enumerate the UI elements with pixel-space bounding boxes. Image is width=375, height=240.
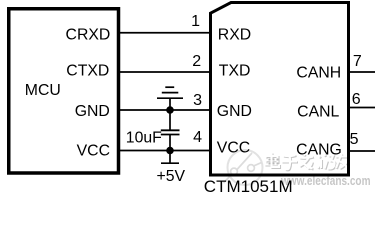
svg-text:3: 3 (193, 92, 202, 109)
svg-text:1: 1 (191, 13, 200, 30)
junction dot on GND wire (166, 106, 174, 114)
svg-text:10uF: 10uF (126, 130, 162, 147)
+5V supply terminal (161, 151, 179, 164)
wire GND (pin 3) (120, 109, 211, 111)
svg-text:CANG: CANG (296, 142, 342, 159)
capacitor C1 (161, 110, 180, 151)
svg-text:VCC: VCC (77, 143, 110, 160)
svg-text:TXD: TXD (219, 62, 251, 79)
ground symbol (157, 87, 183, 110)
svg-text:MCU: MCU (25, 82, 61, 99)
wire CRXD to RXD (pin 1) (120, 32, 211, 34)
svg-text:VCC: VCC (217, 140, 250, 157)
wire CANL (pin 6) (349, 107, 375, 109)
svg-text:CTM1051M: CTM1051M (204, 177, 293, 196)
CAN transceiver U1 CTM1051M outline (211, 3, 349, 176)
svg-text:2: 2 (192, 53, 201, 70)
junction dot on VCC wire (166, 147, 174, 155)
svg-text:CANH: CANH (296, 64, 341, 81)
wire CANH (pin 7) (349, 71, 375, 73)
svg-text:7: 7 (353, 53, 362, 70)
wire CTXD to TXD (pin 2) (120, 71, 211, 73)
svg-text:GND: GND (75, 103, 110, 120)
wire CANG (pin 5) (349, 150, 375, 152)
wire VCC (pin 4) (120, 150, 211, 152)
MCU box (9, 9, 119, 173)
stylized CJK watermark glyphs drawn as paths (267, 154, 350, 171)
watermark (decorative, unlabelled) (224, 150, 372, 189)
svg-text:CTXD: CTXD (66, 62, 109, 79)
svg-text:6: 6 (352, 91, 361, 108)
svg-text:5: 5 (350, 131, 359, 148)
svg-text:4: 4 (193, 129, 202, 146)
svg-text:CRXD: CRXD (66, 27, 111, 44)
svg-text:GND: GND (217, 103, 252, 120)
svg-text:RXD: RXD (218, 26, 251, 43)
svg-text:+5V: +5V (157, 168, 186, 185)
svg-text:CANL: CANL (297, 103, 339, 120)
